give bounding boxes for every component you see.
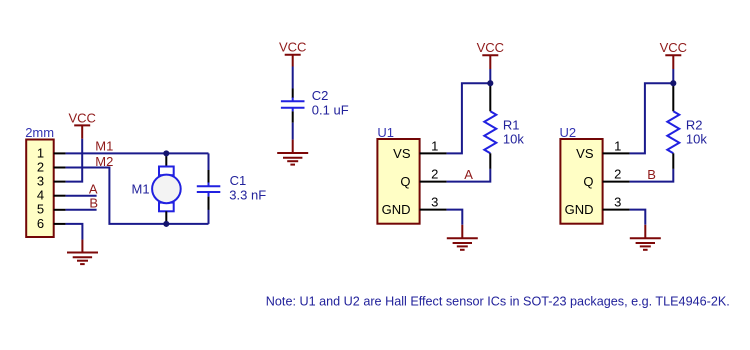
svg-text:2: 2 — [37, 159, 44, 174]
svg-text:3.3 nF: 3.3 nF — [229, 188, 266, 203]
IC U1 designator — [377, 125, 394, 140]
net label B (connector side) — [89, 196, 98, 211]
svg-text:1: 1 — [37, 145, 44, 160]
wire U1 Q output to R1 bottom (net A) — [447, 169, 491, 182]
wire U2 GND pin to ground — [630, 210, 646, 225]
svg-text:3: 3 — [614, 195, 621, 210]
svg-text:GND: GND — [565, 202, 594, 217]
svg-text:GND: GND — [382, 202, 411, 217]
svg-text:M1: M1 — [95, 139, 113, 154]
svg-text:VCC: VCC — [279, 39, 306, 54]
svg-text:A: A — [464, 167, 473, 182]
power symbol VCC (above connector) — [68, 110, 95, 139]
net label M2 — [95, 154, 113, 169]
svg-text:A: A — [89, 181, 98, 196]
junction dot (VCC / R2 / U2-VS node) — [670, 80, 676, 86]
IC U1 body (Hall sensor) — [377, 139, 419, 224]
svg-text:C1: C1 — [230, 173, 247, 188]
wire VCC to R1 node — [489, 69, 491, 83]
net label A (U1 output) — [464, 167, 473, 182]
svg-text:3: 3 — [431, 195, 438, 210]
wire motor loop right side (bottom) — [208, 210, 210, 224]
wire node to U2 pin 1 (VS) — [630, 83, 674, 153]
net label A (connector side) — [89, 181, 98, 196]
connector J1 pin stubs (pins 1-6) — [54, 153, 66, 224]
svg-text:U1: U1 — [377, 125, 394, 140]
wire U1 GND pin to ground — [447, 210, 463, 225]
svg-text:3: 3 — [37, 174, 44, 189]
wire C2 to ground — [292, 123, 294, 140]
svg-text:Q: Q — [583, 174, 593, 189]
svg-text:2: 2 — [431, 167, 438, 182]
svg-text:10k: 10k — [686, 132, 707, 147]
svg-text:VCC: VCC — [68, 110, 95, 125]
svg-text:M2: M2 — [95, 154, 113, 169]
resistor R2 — [667, 83, 679, 169]
svg-text:VCC: VCC — [660, 40, 687, 55]
power symbol VCC (above C2) — [279, 39, 306, 66]
U2 pin 1 — [603, 139, 630, 154]
junction dot (motor top) — [163, 150, 169, 156]
junction dot (VCC / R1 / U1-VS node) — [487, 80, 493, 86]
svg-text:VS: VS — [576, 146, 594, 161]
wire motor loop right side (top) — [208, 153, 210, 170]
svg-text:C2: C2 — [312, 88, 329, 103]
svg-text:VCC: VCC — [477, 40, 504, 55]
svg-text:B: B — [89, 196, 98, 211]
svg-text:VS: VS — [393, 146, 411, 161]
svg-text:1: 1 — [431, 139, 438, 154]
net label M1 — [95, 139, 113, 154]
U1 pin 1 — [420, 139, 447, 154]
wire VCC to R2 node — [672, 69, 674, 83]
capacitor C1 — [197, 170, 221, 210]
svg-text:R1: R1 — [503, 118, 520, 133]
ground symbol (below connector) — [67, 240, 98, 265]
wire pin 4 (net A) — [66, 195, 97, 197]
svg-text:Note: U1 and U2 are Hall Effec: Note: U1 and U2 are Hall Effect sensor I… — [266, 293, 730, 308]
svg-text:6: 6 — [37, 216, 44, 231]
capacitor C2 — [281, 89, 305, 123]
note text — [266, 293, 730, 308]
capacitor C1 label — [229, 173, 266, 203]
connector J1 body (6-pin 2mm header) — [26, 140, 54, 238]
power symbol VCC (above R2) — [660, 40, 687, 69]
svg-text:4: 4 — [37, 188, 44, 203]
svg-text:U2: U2 — [560, 125, 577, 140]
wire pin 5 (net B) — [66, 209, 97, 211]
wire node to U1 pin 1 (VS) — [447, 83, 491, 153]
wire pin 6 to ground — [66, 224, 83, 240]
net label B (U2 output) — [647, 167, 656, 182]
IC U2 body (Hall sensor) — [560, 139, 602, 224]
wire VCC to C2 — [292, 67, 294, 89]
junction dot (motor bottom) — [163, 221, 169, 227]
ground symbol (below U2) — [630, 225, 661, 250]
svg-text:1: 1 — [614, 139, 621, 154]
svg-text:B: B — [647, 167, 656, 182]
svg-text:Q: Q — [400, 174, 410, 189]
U2 pin 2 — [603, 167, 630, 182]
wire net M2: pin 2 down and along motor loop bottom — [66, 168, 209, 224]
svg-text:5: 5 — [37, 202, 44, 217]
svg-text:2mm: 2mm — [25, 125, 54, 140]
wire net M1: pin 1 to motor loop top — [66, 152, 209, 154]
resistor R2 label — [686, 118, 707, 147]
wire U2 Q output to R2 bottom (net B) — [630, 169, 674, 182]
svg-text:M1: M1 — [132, 182, 150, 197]
ground symbol (below C2) — [277, 140, 308, 165]
IC U2 designator — [560, 125, 577, 140]
motor M1 symbol — [152, 153, 181, 224]
svg-text:0.1 uF: 0.1 uF — [312, 103, 349, 118]
connector J1 designator label "2mm" — [25, 125, 54, 140]
U2 pin 3 — [603, 195, 630, 210]
power symbol VCC (above R1) — [477, 40, 504, 69]
resistor R1 label — [503, 118, 524, 147]
wire VCC to pin 3 — [66, 139, 83, 182]
capacitor C2 label — [312, 88, 349, 117]
svg-text:2: 2 — [614, 167, 621, 182]
U1 pin 3 — [420, 195, 447, 210]
ground symbol (below U1) — [447, 225, 478, 250]
U1 pin 2 — [420, 167, 447, 182]
motor M1 designator — [132, 182, 150, 197]
svg-text:10k: 10k — [503, 132, 524, 147]
svg-text:R2: R2 — [686, 118, 703, 133]
resistor R1 — [484, 83, 496, 169]
